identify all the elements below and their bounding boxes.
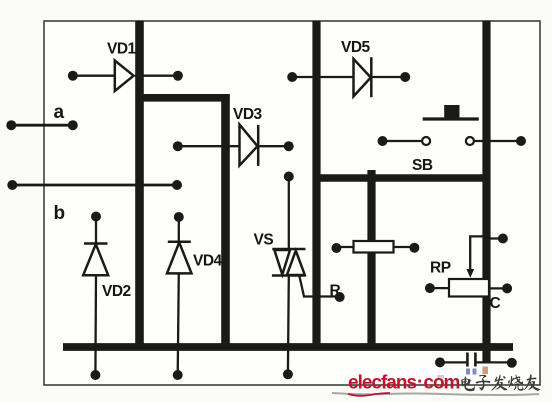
capacitor C plates xyxy=(467,353,475,367)
node: terminal a inner end xyxy=(68,120,78,130)
node: resistor right terminal xyxy=(409,243,419,253)
resistor (unlabeled box) xyxy=(354,241,394,253)
svg-text:VD4: VD4 xyxy=(193,253,223,270)
wire VD5 anode lead xyxy=(292,76,353,78)
svg-text:C: C xyxy=(490,295,501,312)
svg-text:VD1: VD1 xyxy=(107,41,137,58)
wire: horizontal bus on right (y=178) xyxy=(313,174,491,181)
wire VS gate diagonal xyxy=(300,277,340,297)
svg-text:VD3: VD3 xyxy=(233,106,263,123)
wire VS bottom lead down through bus xyxy=(287,276,290,375)
wire: elbow horizontal from VD1 bus to VD3 bus (y=98) xyxy=(136,94,230,102)
wire RP right lead xyxy=(489,287,507,289)
svg-text:VD2: VD2 xyxy=(102,283,131,300)
node: terminal b outer end xyxy=(7,180,17,190)
wire SB right lead xyxy=(475,140,522,142)
thyristor VS (triac symbol) xyxy=(272,249,306,276)
wire VS top lead xyxy=(288,177,290,250)
svg-text:elecfans·com: elecfans·com xyxy=(348,372,460,394)
diode VD2 xyxy=(83,244,108,276)
node: VD5 left terminal xyxy=(287,72,297,82)
node: terminal a outer end xyxy=(6,120,16,130)
node: VD3 right terminal xyxy=(284,141,294,151)
node: SB right terminal xyxy=(516,136,526,146)
node: terminal b inner end xyxy=(172,180,182,190)
switch SB actuator bar xyxy=(423,117,479,120)
svg-text:a: a xyxy=(54,102,65,123)
wire: vertical bus through VD1 cathode (x=139.5) xyxy=(135,21,144,351)
node: VS bottom terminal xyxy=(283,369,293,379)
wire SB left lead xyxy=(383,140,422,142)
svg-text:VS: VS xyxy=(254,232,274,249)
diode VD3 xyxy=(240,125,259,166)
node: VS top terminal xyxy=(284,172,294,182)
svg-text:b: b xyxy=(54,203,66,224)
node: VD4 top terminal xyxy=(174,212,184,222)
wire: vertical branch through resistor box (x=371.5) xyxy=(367,170,375,350)
node: capacitor right terminal xyxy=(507,358,517,368)
node: VD2 top terminal xyxy=(91,212,101,222)
wire VD5 cathode lead xyxy=(371,76,405,78)
wire VD4 cathode lead xyxy=(178,217,180,242)
wire VD1 anode lead xyxy=(73,75,115,77)
wire VD1 cathode lead xyxy=(135,75,178,77)
switch SB contact circle right xyxy=(466,137,474,145)
svg-text:VD5: VD5 xyxy=(341,39,371,56)
wire: bottom horizontal bus (y=347) xyxy=(63,343,513,351)
node: capacitor left terminal xyxy=(435,357,445,367)
node: VD4 bottom terminal xyxy=(173,370,183,380)
watermark chinese characters dianzifashaoyou xyxy=(461,374,540,391)
wire VD3 anode lead xyxy=(178,145,240,147)
wire: vertical bus through VD3 cathode (x=225.5) xyxy=(221,94,230,350)
wire VD4 anode lead down through bus xyxy=(178,273,179,375)
node: RP left terminal xyxy=(425,283,435,293)
scan artifact purple marks xyxy=(466,369,470,375)
wire VD2 cathode lead xyxy=(95,217,97,244)
watermark red squiggle xyxy=(348,393,390,396)
node: VD2 bottom terminal xyxy=(90,370,100,380)
wire: terminal b lead xyxy=(12,184,177,187)
wire: terminal a lead xyxy=(11,124,73,127)
node: gate terminal R xyxy=(335,292,345,302)
svg-text:R: R xyxy=(330,283,341,300)
wire capacitor left lead xyxy=(440,361,466,363)
potentiometer RP box xyxy=(449,279,489,297)
wire VD2 anode lead down through bus xyxy=(94,275,97,375)
wire resistor right lead xyxy=(394,246,415,248)
wire: vertical bus on far right through RP (x=486.5) xyxy=(482,21,490,363)
node: resistor left terminal xyxy=(331,243,341,253)
node: SB left terminal xyxy=(378,136,388,146)
diode VD1 xyxy=(115,61,134,92)
node: VD1 left terminal xyxy=(68,71,78,81)
wire RP wiper arm xyxy=(470,236,484,271)
wire stub to right terminal above RP xyxy=(489,237,503,239)
node: VD5 right terminal xyxy=(400,72,410,82)
diode VD5 xyxy=(354,57,372,97)
wire RP left lead xyxy=(430,287,449,289)
wire: vertical bus through VD5 anode side (x=316.5) xyxy=(312,21,320,351)
wire resistor left lead xyxy=(336,246,353,248)
watermark gray underline xyxy=(332,393,539,395)
node: stub terminal xyxy=(498,234,508,244)
wire VD3 cathode lead xyxy=(258,145,289,147)
svg-text:RP: RP xyxy=(430,260,451,277)
wire capacitor right lead xyxy=(477,361,512,363)
node: VD1 right terminal xyxy=(173,71,183,81)
scan artifact orange mark xyxy=(483,367,489,375)
node: VD3 left terminal xyxy=(173,141,183,151)
switch SB contact circle left xyxy=(422,137,430,145)
node: RP right terminal xyxy=(502,283,512,293)
svg-text:SB: SB xyxy=(412,157,433,174)
switch SB button knob xyxy=(444,105,459,118)
RP wiper arrowhead xyxy=(466,269,474,278)
diode VD4 xyxy=(167,242,192,274)
